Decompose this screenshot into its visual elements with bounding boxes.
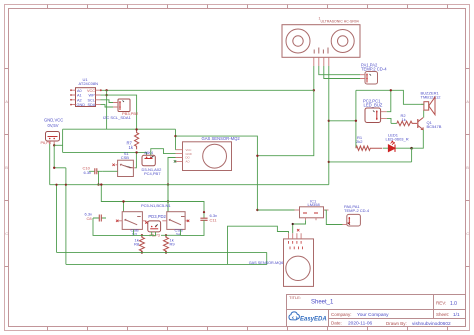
switch S3 CSB: [116, 212, 148, 237]
no-connect X on MQ2 pin4: [174, 160, 176, 162]
svg-text:SCL: SCL: [88, 98, 95, 102]
op-amp IC1 LM358: [295, 199, 329, 221]
wire MQ2 pin3 down to ground bus: [168, 158, 176, 212]
svg-text:C: C: [466, 231, 469, 236]
wire buzzer feed from PC2 loop: [356, 90, 424, 104]
wire LED net return y=161.9: [329, 161, 412, 163]
svg-text:ULTRASONIC HC-SR04: ULTRASONIC HC-SR04: [321, 20, 359, 24]
svg-text:A0: A0: [77, 89, 82, 93]
junction dot pin4/ground link y=161.9: [328, 161, 330, 163]
capacitor C11: [181, 213, 218, 235]
gas sensor MQ6 pin stubs: [289, 233, 302, 239]
frame ticks left: [5, 69, 9, 267]
wire IC1 out right to TEMP-2 pin1: [325, 210, 343, 224]
svg-text:PD3,PD2: PD3,PD2: [148, 214, 166, 219]
capacitor C10: [83, 166, 103, 175]
wire ultrasonic pin2 to TEMP.2 connector: [319, 66, 360, 75]
wire pin2 branch to bus riser: [54, 144, 62, 146]
connector P8 PC2,PC1 LED_BUZ: [363, 99, 387, 123]
wire 0V pin1 down to ground bus: [49, 144, 51, 185]
U1 left pin stubs with NC dots: [71, 90, 76, 104]
svg-text:C: C: [5, 231, 8, 236]
svg-text:0V,5V: 0V,5V: [48, 123, 59, 128]
junction dot VCC node: [105, 89, 107, 91]
junction dot LED cathode node: [410, 147, 413, 150]
junction dot PC2 pin1 tap: [390, 89, 392, 91]
connector P4 D3-N1,A02 PC4,PB7: [142, 151, 163, 176]
svg-text:Drawn By:: Drawn By:: [386, 321, 407, 326]
svg-text:6.3v: 6.3v: [84, 170, 92, 175]
no-connect X on MQ6 pin: [297, 229, 299, 231]
IC U1 AT24C08N body: [76, 77, 99, 107]
svg-text:Company:: Company:: [331, 312, 352, 317]
wire bus riser x=62.6: [62, 129, 64, 152]
capacitor C8: [85, 212, 107, 222]
gas sensor MQ2: [183, 136, 241, 171]
resistor R7 1k: [127, 128, 139, 153]
ultrasonic sensor U2 HC-SR04: [282, 25, 360, 58]
svg-text:PC5-N1,BC5-N1: PC5-N1,BC5-N1: [141, 203, 171, 208]
gas sensor MQ6: [249, 239, 314, 287]
svg-text:BC547B: BC547B: [427, 124, 442, 129]
svg-text:TEMP.2 CD-4: TEMP.2 CD-4: [361, 67, 387, 72]
svg-text:Sheet_1: Sheet_1: [311, 299, 334, 305]
wire C10 node down to bus: [98, 171, 100, 184]
svg-text:CSB: CSB: [121, 155, 130, 160]
transistor Q1 BC547B: [418, 118, 442, 130]
wire SDA to I2C connector: [101, 105, 115, 107]
wire PC2 pin2 to R2: [387, 118, 391, 123]
svg-text:GND: GND: [77, 103, 86, 107]
wire IC1 input from x=257.4: [257, 209, 294, 211]
svg-text:WP: WP: [89, 94, 96, 98]
svg-text:TMB12A12: TMB12A12: [421, 95, 442, 100]
title block texts: [289, 295, 460, 327]
wire branch y=136.1 to x=257.4: [176, 136, 258, 210]
svg-text:GAS SENSOR-MQ6: GAS SENSOR-MQ6: [249, 261, 284, 265]
wire ultrasonic pin4 down (x=328.8): [328, 66, 330, 185]
junction dot B on 5V pin2 line: [53, 167, 55, 169]
svg-text:A2: A2: [77, 98, 82, 102]
svg-text:EasyEDA: EasyEDA: [300, 316, 327, 322]
switch S1 CSB: [112, 151, 134, 176]
wire LED node down to return rail: [411, 148, 413, 162]
frame ticks top: [48, 5, 448, 9]
U1 pin NC dots: [70, 89, 72, 105]
resistor R8 1k: [134, 234, 144, 254]
svg-text:1.0: 1.0: [450, 301, 457, 307]
wire riser x=123.5 to S3: [123, 202, 125, 212]
wire riser x=65.9 to bus2: [65, 168, 67, 265]
svg-text:2k2: 2k2: [356, 139, 363, 144]
junction dot riser bus1: [55, 184, 57, 186]
MQ6 pin name marks: [289, 241, 303, 249]
svg-text:vishnubvinod0602: vishnubvinod0602: [412, 321, 451, 327]
frame ticks right: [466, 69, 470, 267]
svg-text:Date:: Date:: [331, 321, 342, 326]
junction dot rail left riser: [100, 183, 102, 185]
junction dot MQ2 feed branch: [174, 135, 176, 137]
svg-text:I2C SCL_SDA1: I2C SCL_SDA1: [103, 115, 132, 120]
svg-text:R9: R9: [170, 241, 176, 246]
svg-text:GND,VCC: GND,VCC: [44, 117, 63, 122]
resistor R1 2k2: [356, 121, 382, 151]
ground/5V bus y=184.6: [50, 184, 329, 186]
svg-text:LED-0603_R: LED-0603_R: [386, 136, 409, 141]
svg-text:C11: C11: [210, 217, 218, 222]
wire S4 bottom to R9 top: [161, 229, 181, 235]
junction dot WP node: [105, 94, 107, 96]
wire pin2 branch riser x=66.9: [54, 167, 66, 169]
gas sensor MQ2 pin stubs: [176, 150, 183, 162]
svg-text:TITLE:: TITLE:: [289, 295, 301, 300]
svg-text:2020-11-06: 2020-11-06: [348, 321, 373, 327]
wire pin4 branch to R1 top (y=120.8): [329, 120, 356, 122]
resistor R9 1k: [164, 234, 176, 254]
EasyEDA logo: [289, 312, 327, 322]
wire Q1 emitter down to LED node: [412, 130, 424, 149]
svg-text:TEMP-2 CD-4: TEMP-2 CD-4: [344, 208, 370, 213]
svg-text:VCC: VCC: [87, 89, 95, 93]
junction dot pin4 branch y=120.8: [328, 120, 330, 122]
junction dot MQ6 pin2 tap: [292, 223, 294, 225]
wire S3 bottom to R8 top: [134, 229, 156, 235]
connector P3 GND,VCC 0V,5V: [41, 117, 64, 145]
junction dot 5V pin2 branch: [53, 144, 55, 146]
svg-text:REV:: REV:: [436, 301, 446, 306]
wire riser x=168 to S4: [167, 185, 169, 212]
LED1 LED-0603_R: [383, 132, 412, 152]
pin dot U1 VCC: [100, 89, 102, 91]
svg-text:1: 1: [319, 17, 321, 21]
junction dot gas pin3 riser on bus: [167, 183, 169, 185]
svg-text:JAK4: JAK4: [144, 151, 153, 155]
title block: [287, 295, 466, 327]
wire 5V bus y=129.2: [63, 128, 176, 130]
svg-text:1/1: 1/1: [453, 312, 460, 318]
wire riser x=356.8 to R1 line: [355, 90, 357, 121]
junction dot gas pin3 riser on rail2: [167, 200, 169, 202]
wire 5V pin2 to elbow: [53, 144, 55, 168]
wire WP loop right and down: [101, 95, 137, 129]
junction dot x=257.4 y=155.8: [256, 155, 258, 157]
svg-text:Sheet:: Sheet:: [436, 312, 449, 317]
wire VCC rail y=90.3: [101, 89, 314, 91]
connector P7 PA0,PA1 TEMP-2 CD-4: [342, 204, 370, 226]
wire R7 feed y=152.4: [63, 152, 147, 167]
junction dot x=257.4 y=210: [256, 209, 258, 211]
resistor R2 1k: [391, 113, 417, 126]
frame ticks bottom: [48, 327, 448, 331]
connector P2 PB3,PB2 I2C: [103, 99, 139, 120]
wire 5V bus down to MQ2 pin1: [175, 129, 177, 150]
wire IC1 bottom pin1 to MQ6: [293, 220, 306, 233]
svg-text:C8: C8: [87, 216, 93, 221]
connector P1 PA1,PA2 TEMP.2 CD-4: [360, 63, 387, 85]
svg-text:B: B: [5, 165, 8, 170]
svg-text:A1: A1: [77, 94, 82, 98]
frame row letters: [5, 99, 469, 236]
wire ultrasonic pin1 down (x=313.8): [257, 66, 313, 156]
bus2 ground rail y=264.4: [66, 252, 267, 264]
svg-text:B: B: [466, 165, 469, 170]
svg-text:A: A: [466, 99, 469, 104]
junction dot C11 top: [203, 211, 205, 213]
svg-text:SDA: SDA: [88, 103, 96, 107]
wire VCC node down to 5V bus: [106, 90, 108, 129]
svg-text:LED_BUZ: LED_BUZ: [364, 103, 383, 108]
wire PC2 pin1 up to buzzer line: [387, 90, 391, 111]
rail y=201.5: [101, 185, 204, 219]
junction dot pin1/VCC rail: [313, 89, 315, 91]
ultrasonic pin stubs: [314, 57, 329, 66]
buzzer BUZZER1 TMB12A12: [421, 91, 442, 115]
connector P5 PD3,PD2: [148, 214, 167, 237]
wire C8 down to link line: [93, 218, 134, 235]
wire bus2 riser to MQ6 pin1: [228, 226, 289, 264]
low bus y=252.5: [57, 251, 267, 253]
wire C10 to S1: [102, 170, 117, 172]
switch S4 CSB: [162, 212, 189, 237]
svg-text:AT24C08N: AT24C08N: [79, 81, 99, 86]
svg-text:Your Company: Your Company: [357, 312, 389, 318]
svg-text:A: A: [5, 99, 8, 104]
junction dot C10 riser on bus: [97, 183, 99, 185]
wire D3 connector to gas sensor pin2: [151, 149, 176, 156]
junction dot C on bus x=66.9: [65, 184, 67, 186]
U1 right pin stubs: [96, 90, 101, 104]
wire riser x=56.5 to bus1: [56, 185, 58, 253]
junction dot S3 riser: [122, 200, 124, 202]
ultrasonic label: [319, 17, 359, 24]
svg-text:PC4,PB7: PC4,PB7: [144, 171, 161, 176]
wire Q1 collector up to buzzer: [423, 110, 425, 117]
junction dot R1/riser: [355, 120, 357, 122]
wire ultrasonic pin3 to TEMP.2 connector: [324, 66, 360, 79]
wire SCL to I2C connector: [101, 100, 115, 103]
